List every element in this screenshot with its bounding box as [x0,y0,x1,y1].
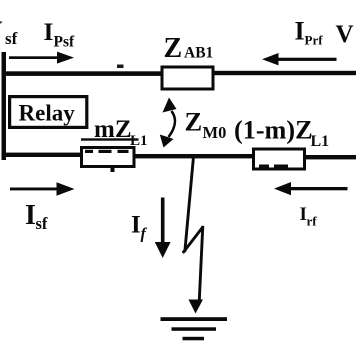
svg-text:(1-m)Z: (1-m)Z [234,116,313,145]
wire: top line left segment [2,71,162,76]
svg-text:I: I [44,17,54,46]
svg-text:Z: Z [185,107,203,137]
svg-text:Relay: Relay [19,101,76,126]
wire: lower line left segment [2,153,82,157]
ground line 2 [172,327,217,331]
svg-text:f: f [141,226,148,243]
scan marks inside right resistor bottom [259,165,269,168]
svg-text:M0: M0 [203,123,227,142]
arrow I_sf (right) [10,188,59,191]
svg-text:Z: Z [164,33,183,64]
arrow I_rf (left) [290,187,348,190]
svg-text:L1: L1 [311,133,330,150]
wire: lower line right segment [304,155,356,159]
arrow I_f (down) [161,198,165,244]
scan tick below mZ_L1 box [111,167,115,172]
relay box [10,97,87,128]
svg-text:AB1: AB1 [184,45,213,62]
wire: top line right segment [213,71,356,75]
fault lightning segment 1 [185,157,194,253]
svg-text:Prf: Prf [305,33,324,48]
ground line 3 [183,337,205,341]
underline under mZ_L1 [81,138,139,140]
fault arrowhead [189,300,204,314]
svg-text:L1: L1 [130,133,148,149]
svg-text:Psf: Psf [54,34,76,51]
svg-text:V: V [0,17,3,44]
ground line 1 [161,317,228,321]
svg-text:sf: sf [36,214,48,233]
arrow I_Psf (right) [9,56,60,59]
fault lightning segment 3 [199,226,203,300]
wire: lower line middle segment [134,154,254,158]
scan marks inside mZ_L1 box top [85,150,93,153]
node: left bus bar [2,52,7,160]
curved double arrow (Z_M0 measurement) [169,111,176,137]
svg-text:I: I [295,17,305,46]
svg-text:I: I [25,200,36,231]
arrow I_Prf (left) [278,58,337,61]
svg-text:V: V [336,21,354,48]
fault lightning segment 2 [183,227,203,253]
resistor Z_AB1 box [162,67,213,89]
svg-text:I: I [131,212,141,239]
resistor mZ_L1 box [82,148,135,167]
scan speck above top line [117,65,124,69]
svg-text:rf: rf [307,214,318,229]
svg-text:sf: sf [5,29,18,48]
resistor (1-m)Z_L1 box [254,149,305,169]
